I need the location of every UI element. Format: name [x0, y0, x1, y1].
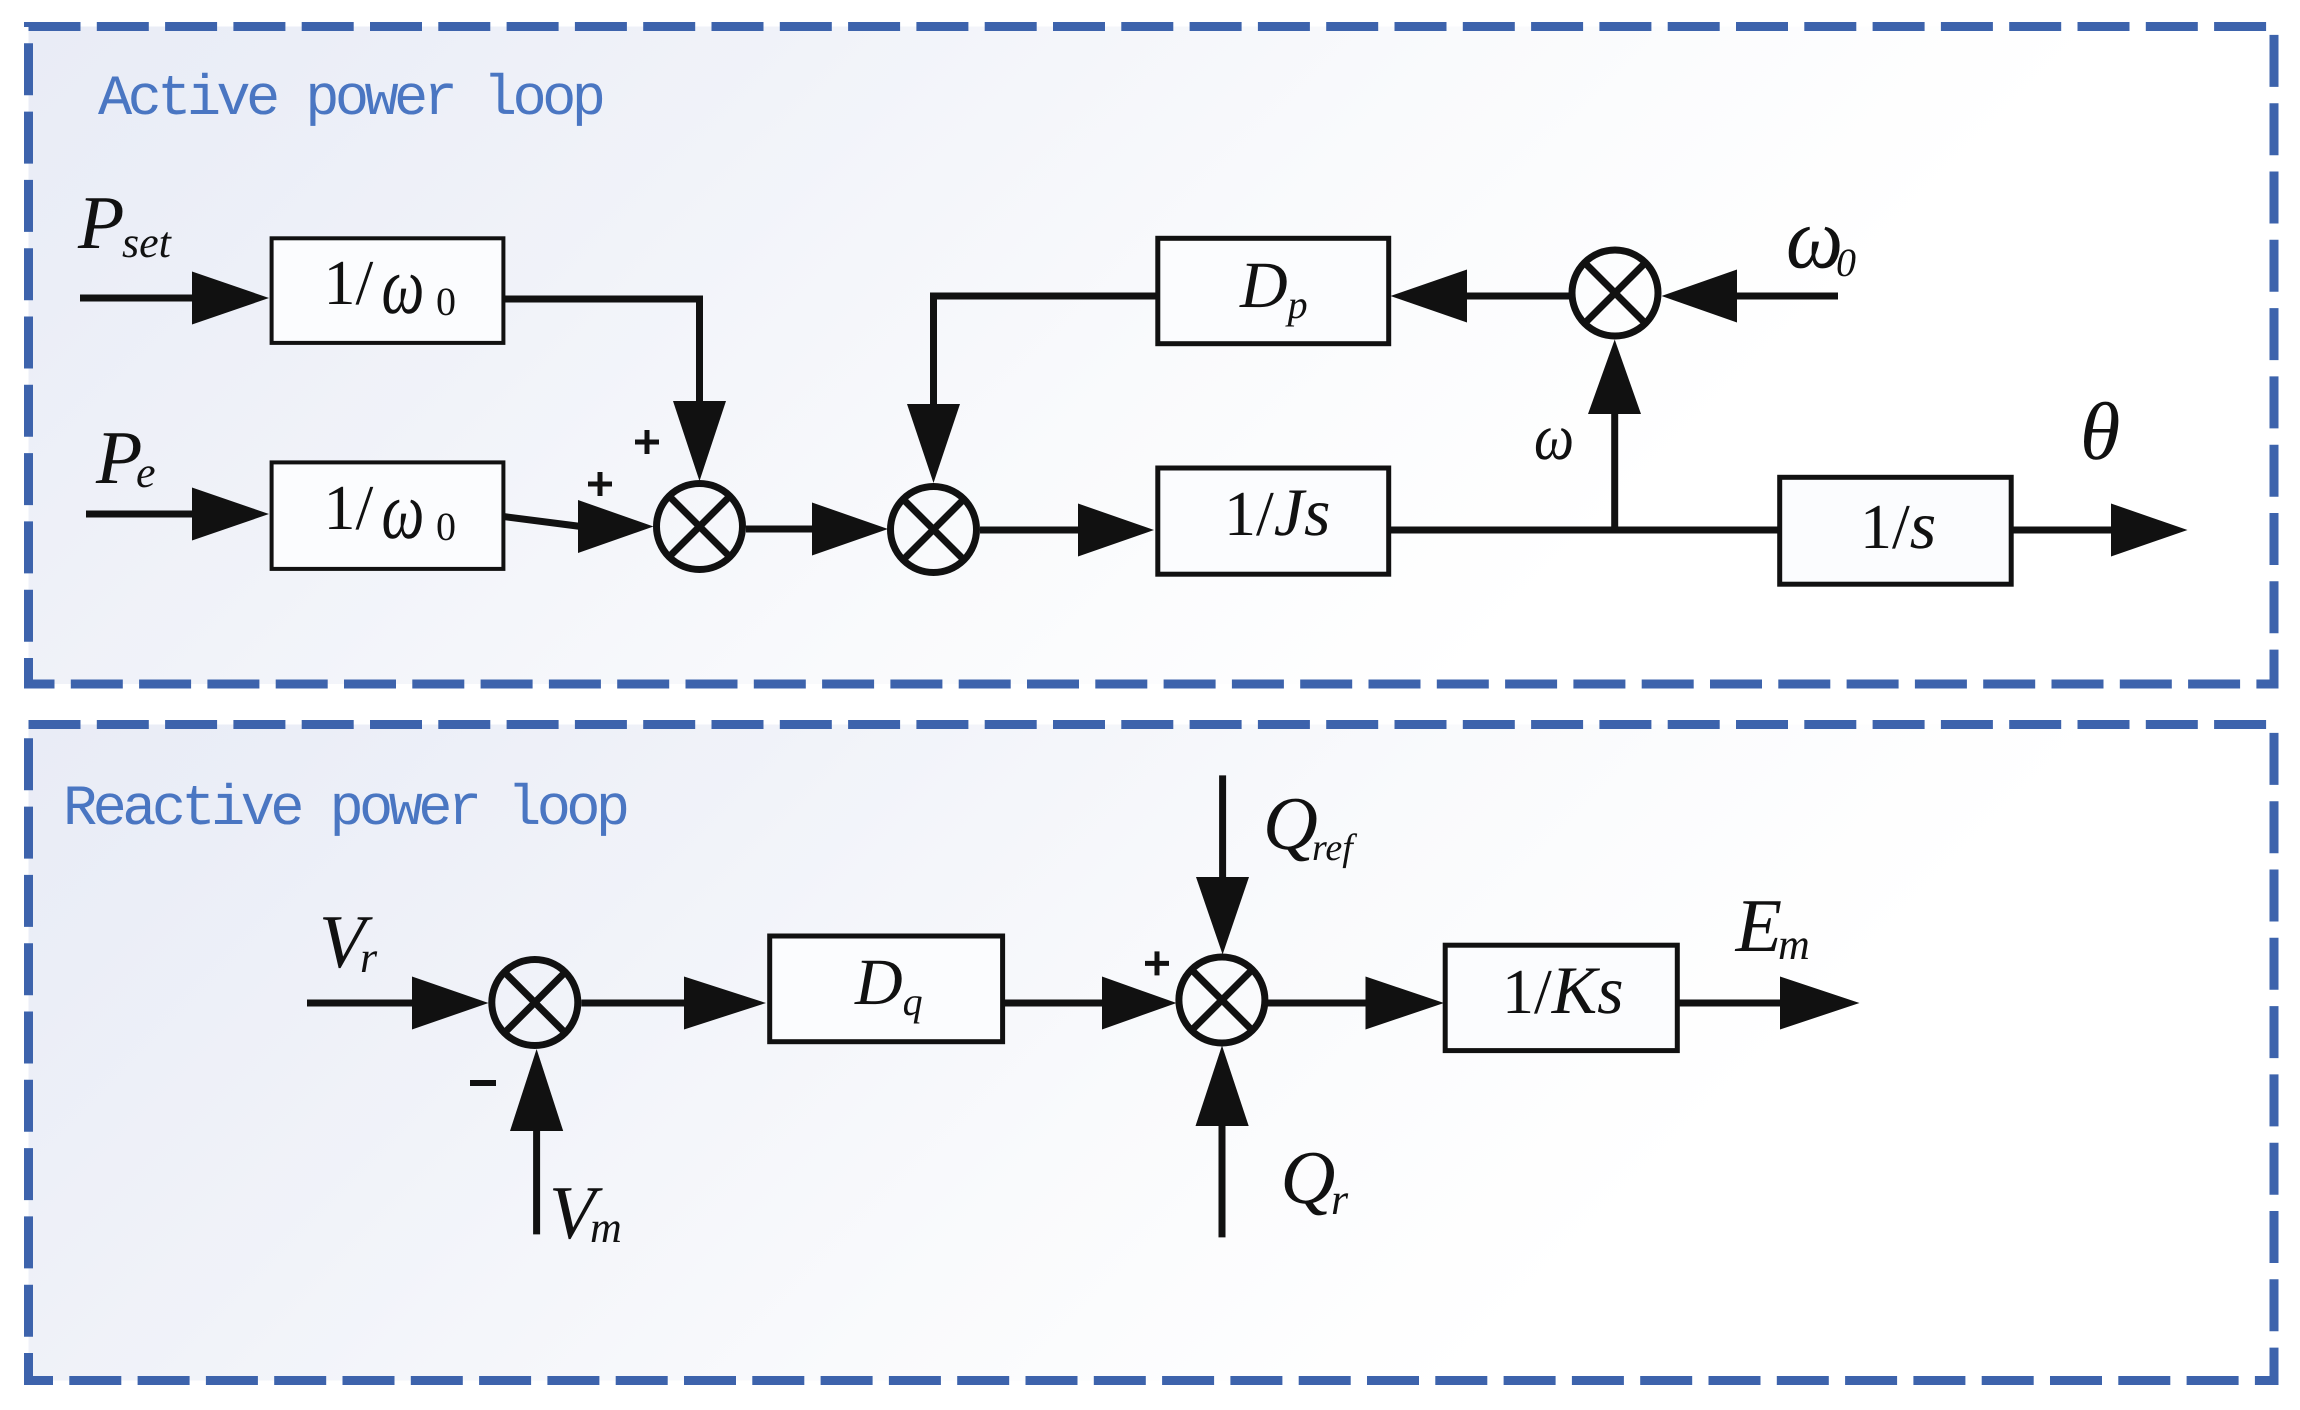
plus sign left of S5: [1145, 951, 1169, 975]
svg-text:P: P: [77, 181, 124, 265]
svg-text:1/: 1/: [324, 247, 374, 318]
svg-text:1/Ks: 1/Ks: [1502, 952, 1624, 1028]
svg-text:ω: ω: [1534, 401, 1574, 474]
wire w0 input into S3: [1662, 270, 1839, 323]
svg-text:Reactive power loop: Reactive power loop: [63, 778, 627, 842]
wire Vm input up into S4: [510, 1049, 563, 1234]
wire Dp feedback into S2: [907, 296, 1158, 483]
wire S3 to Dp with left arrow: [1391, 270, 1574, 323]
svg-text:0: 0: [1836, 240, 1856, 285]
node Pset label: [77, 181, 173, 267]
wire omega junction up into S3: [1588, 340, 1641, 531]
svg-text:1/s: 1/s: [1860, 487, 1936, 563]
active power loop dashed frame: [29, 27, 2275, 685]
svg-text:r: r: [1331, 1175, 1349, 1224]
block Dq: [770, 936, 1003, 1042]
plus sign left of S1: [588, 472, 612, 496]
wire Em output arrow: [1677, 977, 1859, 1030]
svg-text:1/Js: 1/Js: [1224, 474, 1330, 550]
svg-text:0: 0: [436, 279, 456, 324]
svg-text:θ: θ: [2080, 386, 2120, 477]
svg-text:E: E: [1735, 884, 1782, 968]
block 1/w0 upper: [272, 238, 504, 343]
wire lower 1/w0 to S1: [503, 500, 653, 553]
svg-text:ω: ω: [1786, 190, 1843, 287]
block Dp: [1158, 238, 1389, 343]
svg-text:Active power loop: Active power loop: [98, 68, 603, 132]
svg-text:r: r: [360, 933, 378, 982]
summing junction S2: [891, 487, 977, 573]
wire S4 to Dq: [581, 977, 766, 1030]
wire from upper 1/w0 down into summing junction S1: [503, 299, 726, 481]
svg-text:Q: Q: [1263, 782, 1318, 866]
wire S1 to S2: [746, 503, 888, 556]
wire Qref input down into S5: [1196, 775, 1249, 954]
reactive power loop dashed frame: [29, 725, 2275, 1381]
plus sign above S1: [635, 430, 659, 454]
wire 1/Js to 1/s: [1389, 527, 1780, 534]
node Qr label: [1281, 1136, 1350, 1224]
svg-text:ω: ω: [382, 465, 425, 556]
block 1/w0 lower: [272, 462, 504, 569]
node Qref label: [1263, 782, 1357, 869]
node w0 label: [1786, 190, 1856, 287]
summing junction S5: [1179, 957, 1265, 1043]
wire Pset input arrow: [80, 272, 269, 325]
svg-text:ref: ref: [1312, 827, 1357, 869]
wire Pe input arrow: [86, 488, 269, 541]
svg-text:0: 0: [436, 504, 456, 549]
svg-text:ω: ω: [382, 240, 425, 331]
block 1/Ks: [1445, 945, 1677, 1050]
summing junction S1: [657, 484, 743, 570]
summing junction S4: [492, 960, 578, 1046]
wire Vr input arrow: [307, 977, 489, 1030]
svg-text:set: set: [122, 218, 173, 267]
svg-text:m: m: [1778, 920, 1810, 969]
svg-text:Q: Q: [1281, 1136, 1336, 1220]
node Em label: [1735, 884, 1810, 969]
block 1/s: [1780, 477, 2012, 584]
node Vr label: [319, 900, 378, 984]
node Vm label: [549, 1171, 622, 1255]
summing junction S3: [1572, 250, 1658, 336]
svg-text:m: m: [590, 1203, 622, 1252]
wire Qr input up into S5: [1196, 1046, 1249, 1238]
wire Dq to S5: [1003, 977, 1177, 1030]
node Pe label: [95, 416, 156, 500]
wire S5 to 1/Ks: [1267, 977, 1444, 1030]
block 1/Js: [1158, 468, 1389, 574]
svg-text:e: e: [136, 448, 156, 497]
minus sign below S4: [470, 1080, 496, 1086]
svg-text:1/: 1/: [324, 472, 374, 543]
wire theta output arrow: [2011, 504, 2187, 557]
wire S2 to 1/Js: [980, 504, 1154, 557]
